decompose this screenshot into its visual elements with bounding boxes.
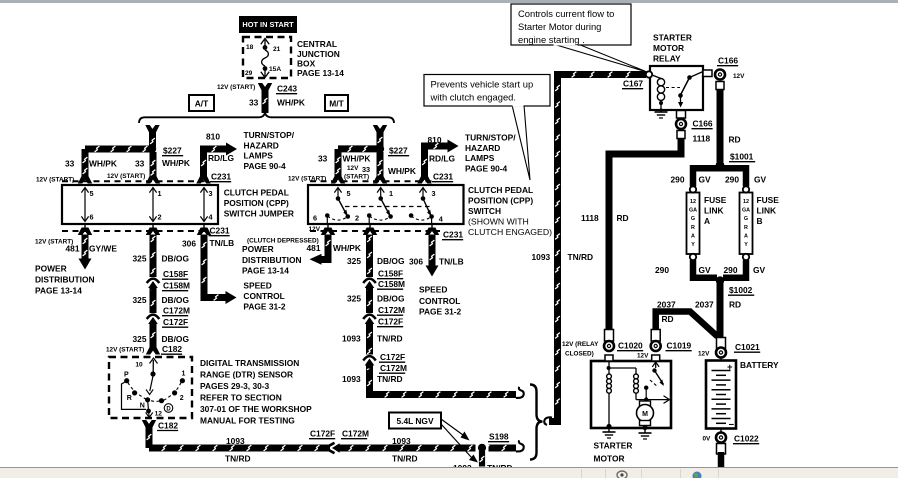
- svg-text:TN/RD: TN/RD: [377, 374, 403, 384]
- svg-text:0V: 0V: [703, 436, 712, 443]
- svg-text:C172F: C172F: [378, 317, 403, 327]
- svg-text:BATTERY: BATTERY: [740, 360, 779, 370]
- svg-text:C182: C182: [158, 420, 178, 430]
- svg-text:WH/PK: WH/PK: [277, 98, 305, 108]
- svg-text:481: 481: [307, 243, 321, 253]
- svg-text:33: 33: [318, 154, 328, 164]
- svg-text:Controls current flow to: Controls current flow to: [518, 8, 614, 19]
- svg-text:290: 290: [655, 265, 669, 275]
- svg-text:12V (START): 12V (START): [288, 176, 326, 183]
- svg-text:WH/PK: WH/PK: [89, 159, 117, 169]
- svg-text:C1020: C1020: [618, 341, 643, 351]
- svg-text:WH/PK: WH/PK: [162, 158, 190, 168]
- svg-text:DB/OG: DB/OG: [162, 295, 189, 305]
- svg-text:1093: 1093: [342, 374, 361, 384]
- svg-text:3: 3: [209, 189, 213, 198]
- svg-text:TURN/STOP/: TURN/STOP/: [244, 130, 295, 140]
- svg-text:C172F: C172F: [380, 352, 405, 362]
- svg-text:290: 290: [725, 175, 739, 185]
- svg-text:PAGES 29-3, 30-3: PAGES 29-3, 30-3: [200, 381, 270, 391]
- svg-text:PAGE 31-2: PAGE 31-2: [243, 302, 286, 312]
- svg-text:6: 6: [313, 214, 317, 223]
- svg-text:33: 33: [65, 159, 75, 169]
- svg-text:Prevents vehicle start up: Prevents vehicle start up: [431, 79, 534, 90]
- svg-text:12: 12: [155, 411, 163, 418]
- svg-text:CONTROL: CONTROL: [243, 291, 284, 301]
- svg-text:C166: C166: [693, 119, 713, 129]
- svg-text:1093: 1093: [532, 252, 551, 262]
- svg-text:290: 290: [671, 175, 685, 185]
- svg-text:(SHOWN WITH: (SHOWN WITH: [468, 216, 529, 226]
- svg-text:LAMPS: LAMPS: [465, 153, 495, 163]
- svg-text:DIGITAL TRANSMISSION: DIGITAL TRANSMISSION: [200, 358, 299, 368]
- svg-text:2: 2: [355, 214, 359, 223]
- svg-text:DISTRIBUTION: DISTRIBUTION: [242, 255, 302, 265]
- svg-text:DISTRIBUTION: DISTRIBUTION: [35, 275, 95, 285]
- svg-text:CONTROL: CONTROL: [419, 296, 460, 306]
- svg-text:R: R: [127, 395, 132, 402]
- svg-text:1093: 1093: [226, 436, 245, 446]
- svg-text:−: −: [729, 420, 735, 431]
- svg-text:STARTER: STARTER: [594, 441, 633, 451]
- svg-text:C158F: C158F: [378, 269, 403, 279]
- svg-text:C243: C243: [277, 84, 297, 94]
- svg-text:CENTRAL: CENTRAL: [297, 39, 337, 49]
- svg-text:with clutch engaged.: with clutch engaged.: [430, 92, 516, 103]
- svg-text:LAMPS: LAMPS: [244, 151, 274, 161]
- svg-text:POWER: POWER: [242, 244, 274, 254]
- svg-text:12V: 12V: [637, 353, 649, 360]
- svg-text:1093: 1093: [342, 334, 361, 344]
- svg-text:FUSE: FUSE: [757, 195, 780, 205]
- svg-text:D: D: [166, 407, 171, 413]
- svg-text:RD: RD: [729, 300, 741, 310]
- svg-text:SWITCH: SWITCH: [468, 206, 501, 216]
- svg-text:C158M: C158M: [378, 279, 405, 289]
- svg-text:R: R: [691, 225, 695, 231]
- svg-text:A: A: [704, 216, 710, 226]
- svg-text:GA: GA: [689, 208, 697, 214]
- svg-text:12V (RELAY: 12V (RELAY: [562, 341, 599, 348]
- svg-text:306: 306: [182, 239, 196, 249]
- svg-text:DB/OG: DB/OG: [377, 256, 404, 266]
- svg-text:CLUTCH ENGAGED): CLUTCH ENGAGED): [468, 227, 552, 237]
- svg-text:C172F: C172F: [163, 317, 188, 327]
- svg-text:MOTOR: MOTOR: [653, 43, 684, 53]
- svg-text:12: 12: [690, 199, 696, 205]
- svg-text:481: 481: [66, 244, 80, 254]
- svg-text:TN/RD: TN/RD: [377, 334, 403, 344]
- svg-text:4: 4: [439, 215, 444, 224]
- svg-text:DB/OG: DB/OG: [377, 294, 404, 304]
- svg-text:JUNCTION: JUNCTION: [297, 49, 340, 59]
- svg-text:STARTER: STARTER: [653, 33, 692, 43]
- svg-text:TN/LB: TN/LB: [210, 238, 235, 248]
- svg-text:1: 1: [182, 371, 186, 378]
- svg-text:1118: 1118: [581, 213, 599, 223]
- svg-text:10: 10: [135, 362, 143, 369]
- svg-text:RD: RD: [729, 135, 741, 145]
- svg-text:(START): (START): [344, 174, 369, 181]
- svg-text:12V (START): 12V (START): [36, 177, 74, 184]
- svg-text:C172M: C172M: [378, 305, 405, 315]
- svg-text:29: 29: [245, 70, 253, 77]
- svg-text:TN/LB: TN/LB: [439, 257, 464, 267]
- svg-text:TN/RD: TN/RD: [392, 453, 418, 463]
- svg-text:TURN/STOP/: TURN/STOP/: [465, 133, 516, 143]
- svg-text:+: +: [727, 362, 733, 373]
- svg-text:5.4L NGV: 5.4L NGV: [396, 416, 433, 426]
- svg-text:325: 325: [133, 295, 147, 305]
- svg-text:C172M: C172M: [342, 429, 369, 439]
- svg-text:12V: 12V: [309, 226, 321, 233]
- svg-text:PAGE 13-14: PAGE 13-14: [35, 286, 82, 296]
- svg-text:C172F: C172F: [310, 429, 335, 439]
- svg-text:A: A: [691, 233, 695, 239]
- svg-text:P: P: [124, 371, 129, 378]
- svg-text:Y: Y: [691, 242, 695, 248]
- svg-text:3: 3: [432, 189, 436, 198]
- svg-text:GV: GV: [753, 265, 766, 275]
- svg-text:Y: Y: [744, 242, 748, 248]
- svg-text:12V (START): 12V (START): [217, 84, 255, 91]
- svg-text:GY/WE: GY/WE: [89, 244, 117, 254]
- svg-text:RD/LG: RD/LG: [429, 154, 455, 164]
- svg-text:GV: GV: [699, 175, 712, 185]
- svg-text:CLUTCH PEDAL: CLUTCH PEDAL: [224, 188, 289, 198]
- svg-text:C172M: C172M: [163, 306, 190, 316]
- svg-text:$227: $227: [389, 146, 408, 156]
- svg-text:HOT IN START: HOT IN START: [242, 20, 294, 29]
- svg-text:TN/RD: TN/RD: [225, 453, 251, 463]
- svg-text:12V: 12V: [698, 351, 710, 358]
- svg-text:WH/PK: WH/PK: [333, 243, 361, 253]
- svg-text:C1021: C1021: [735, 342, 760, 352]
- svg-text:POSITION (CPP): POSITION (CPP): [468, 195, 533, 205]
- svg-text:LINK: LINK: [757, 206, 777, 216]
- svg-text:RD: RD: [662, 314, 674, 324]
- svg-text:PAGE 13-14: PAGE 13-14: [242, 266, 289, 276]
- svg-text:WH/PK: WH/PK: [343, 154, 371, 164]
- svg-text:M: M: [642, 411, 648, 418]
- svg-text:PAGE 31-2: PAGE 31-2: [419, 307, 462, 317]
- svg-text:TN/RD: TN/RD: [568, 252, 594, 262]
- svg-text:6: 6: [90, 213, 94, 222]
- svg-text:12V: 12V: [347, 165, 359, 172]
- svg-text:GA: GA: [742, 208, 750, 214]
- svg-text:A/T: A/T: [195, 99, 209, 109]
- svg-text:810: 810: [206, 132, 220, 142]
- svg-text:RANGE (DTR) SENSOR: RANGE (DTR) SENSOR: [200, 370, 293, 380]
- svg-text:2037: 2037: [657, 300, 676, 310]
- svg-text:CLUTCH PEDAL: CLUTCH PEDAL: [468, 185, 533, 195]
- svg-text:$227: $227: [163, 146, 182, 156]
- svg-text:$1001: $1001: [730, 152, 754, 162]
- svg-text:G: G: [691, 216, 695, 222]
- svg-text:HAZARD: HAZARD: [465, 143, 500, 153]
- svg-text:C231: C231: [210, 226, 230, 236]
- svg-text:engine starting .: engine starting .: [518, 34, 585, 45]
- svg-text:2: 2: [180, 395, 184, 402]
- svg-text:G: G: [744, 216, 748, 222]
- svg-text:325: 325: [133, 254, 147, 264]
- svg-text:REFER TO SECTION: REFER TO SECTION: [200, 393, 282, 403]
- svg-text:5: 5: [90, 189, 94, 198]
- svg-text:RD: RD: [617, 213, 629, 223]
- svg-text:1118: 1118: [693, 134, 711, 144]
- svg-text:2: 2: [158, 213, 162, 222]
- svg-text:15A: 15A: [269, 66, 281, 73]
- svg-text:4: 4: [209, 213, 214, 222]
- svg-text:12V (START): 12V (START): [106, 347, 144, 354]
- svg-text:C231: C231: [211, 172, 231, 182]
- svg-text:325: 325: [347, 256, 361, 266]
- svg-text:Starter Motor during: Starter Motor during: [518, 21, 601, 32]
- svg-text:$1002: $1002: [729, 285, 753, 295]
- svg-text:GV: GV: [754, 175, 767, 185]
- svg-text:C1022: C1022: [734, 434, 759, 444]
- svg-text:C182: C182: [162, 344, 182, 354]
- svg-text:HAZARD: HAZARD: [244, 140, 279, 150]
- svg-text:DB/OG: DB/OG: [162, 334, 189, 344]
- svg-text:POWER: POWER: [35, 264, 67, 274]
- svg-text:C167: C167: [623, 79, 643, 89]
- svg-text:5: 5: [347, 189, 351, 198]
- svg-text:N: N: [140, 403, 145, 410]
- svg-text:C172M: C172M: [380, 363, 407, 373]
- svg-text:MOTOR: MOTOR: [594, 454, 625, 464]
- svg-text:RD/LG: RD/LG: [208, 153, 234, 163]
- svg-text:C231: C231: [443, 230, 463, 240]
- svg-text:1: 1: [389, 189, 393, 198]
- svg-text:12: 12: [743, 199, 749, 205]
- svg-text:DB/OG: DB/OG: [162, 254, 189, 264]
- svg-text:307-01 OF THE WORKSHOP: 307-01 OF THE WORKSHOP: [200, 404, 312, 414]
- svg-text:C158M: C158M: [163, 281, 190, 291]
- svg-text:A: A: [744, 233, 748, 239]
- svg-text:325: 325: [133, 334, 147, 344]
- svg-text:MANUAL FOR TESTING: MANUAL FOR TESTING: [200, 416, 295, 426]
- svg-text:12V (START): 12V (START): [107, 173, 145, 180]
- svg-text:PAGE 13-14: PAGE 13-14: [297, 68, 344, 78]
- svg-text:SWITCH JUMPER: SWITCH JUMPER: [224, 209, 294, 219]
- svg-text:C158F: C158F: [163, 269, 188, 279]
- svg-text:810: 810: [428, 135, 442, 145]
- svg-text:SPEED: SPEED: [419, 285, 447, 295]
- svg-text:B: B: [757, 216, 763, 226]
- svg-text:2037: 2037: [695, 300, 714, 310]
- svg-text:PAGE 90-4: PAGE 90-4: [244, 161, 287, 171]
- svg-text:325: 325: [347, 294, 361, 304]
- svg-text:S198: S198: [489, 432, 509, 442]
- svg-text:1: 1: [158, 189, 162, 198]
- svg-text:C166: C166: [718, 56, 738, 66]
- svg-text:WH/PK: WH/PK: [388, 166, 416, 176]
- svg-text:R: R: [744, 225, 748, 231]
- svg-text:33: 33: [249, 98, 259, 108]
- svg-text:M/T: M/T: [329, 99, 344, 109]
- svg-text:GV: GV: [699, 265, 712, 275]
- svg-text:PAGE 90-4: PAGE 90-4: [465, 164, 508, 174]
- svg-text:LINK: LINK: [704, 206, 724, 216]
- svg-text:306: 306: [409, 257, 423, 267]
- svg-text:BOX: BOX: [297, 59, 316, 69]
- svg-text:C231: C231: [433, 172, 453, 182]
- svg-text:RELAY: RELAY: [653, 54, 681, 64]
- svg-text:POSITION (CPP): POSITION (CPP): [224, 198, 289, 208]
- svg-text:290: 290: [724, 265, 738, 275]
- svg-text:18: 18: [246, 44, 254, 51]
- svg-text:SPEED: SPEED: [243, 281, 271, 291]
- svg-text:C1019: C1019: [667, 341, 692, 351]
- svg-text:21: 21: [273, 46, 281, 53]
- svg-text:CLOSED): CLOSED): [565, 351, 594, 358]
- svg-text:33: 33: [135, 159, 145, 169]
- svg-text:12V: 12V: [733, 73, 745, 80]
- svg-text:FUSE: FUSE: [704, 195, 727, 205]
- svg-text:1093: 1093: [392, 436, 411, 446]
